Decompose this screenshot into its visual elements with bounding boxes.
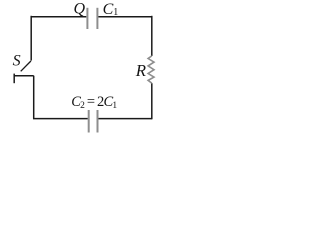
wire from switch contact to lower-left corner — [14, 75, 34, 77]
svg-text:Q: Q — [74, 1, 86, 18]
capacitor C2 right plate — [97, 110, 99, 133]
svg-text:C2 = 2C1: C2 = 2C1 — [71, 94, 117, 111]
wire top-right segment from C1 to corner — [98, 16, 152, 18]
wire lower-left vertical — [33, 76, 35, 119]
svg-text:R: R — [135, 61, 146, 80]
capacitor C2 left plate — [88, 110, 90, 133]
svg-text:S: S — [13, 52, 21, 69]
switch S lower contact bar — [13, 74, 15, 84]
wire left vertical from top corner to switch — [30, 16, 32, 61]
wire bottom-right segment from C2 to corner — [99, 118, 152, 120]
capacitor C1 left plate — [86, 8, 88, 29]
wire top-left segment to C1 — [31, 16, 86, 18]
wire bottom-left segment to C2 — [33, 118, 88, 120]
capacitor C1 right plate — [96, 8, 98, 29]
wire right vertical lower (resistor to bottom corner) — [151, 83, 153, 119]
resistor R zigzag — [148, 56, 154, 83]
wire right vertical upper (top corner to resistor) — [151, 16, 153, 56]
svg-text:C1: C1 — [103, 1, 119, 18]
switch S blade — [21, 61, 31, 71]
